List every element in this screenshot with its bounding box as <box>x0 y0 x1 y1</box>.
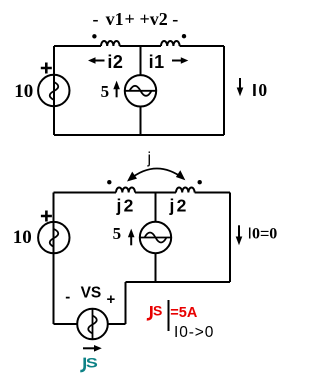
coupling arc j <box>130 168 184 179</box>
inductor L2 <box>161 41 180 46</box>
arrow 5 up bottom <box>130 235 132 245</box>
source I1 circle <box>125 75 156 106</box>
svg-text:S: S <box>153 303 162 319</box>
dot L4 <box>198 180 202 184</box>
wire bottom top circuit <box>54 134 224 136</box>
svg-text:+: + <box>107 291 116 308</box>
svg-text:v1: v1 <box>106 9 124 29</box>
svg-text:j: j <box>147 150 152 167</box>
svg-text:I0->0: I0->0 <box>174 324 214 341</box>
source JS sine <box>88 316 97 334</box>
arrow I0 down <box>239 78 241 89</box>
svg-text:VS: VS <box>81 284 102 301</box>
svg-text:i2: i2 <box>107 52 123 72</box>
svg-text:10: 10 <box>14 81 33 102</box>
source I2 line <box>140 237 171 239</box>
dot L1 <box>92 34 96 38</box>
svg-text:S: S <box>86 355 98 371</box>
source V2 sine <box>50 229 59 247</box>
svg-text:j2: j2 <box>169 196 189 216</box>
inductor L1 <box>101 41 120 46</box>
dot L3 <box>107 180 111 184</box>
label JS teal <box>80 358 84 371</box>
source V1 circle <box>38 75 69 106</box>
wire top circuit outer rectangle top <box>54 45 224 47</box>
svg-text:5: 5 <box>101 82 110 101</box>
source JS circle <box>77 309 108 340</box>
arrow 5 up <box>116 87 118 97</box>
dot L2 <box>182 34 186 38</box>
svg-text:=5A: =5A <box>170 305 198 321</box>
arrow JS right <box>83 347 95 349</box>
arrow i2 <box>95 60 105 62</box>
source I2 sine <box>145 233 167 243</box>
arrow I0 down bottom <box>238 225 240 237</box>
arrow i1 <box>172 60 183 62</box>
source I1 sine <box>130 86 152 96</box>
source I1 line <box>125 90 156 92</box>
svg-text:-: - <box>93 9 99 29</box>
svg-text:10: 10 <box>13 227 32 248</box>
label plus V1 <box>41 63 52 74</box>
wire middle branch top circuit <box>140 46 142 135</box>
svg-text:I0: I0 <box>252 80 267 100</box>
wire bottom-right horizontal <box>126 281 231 283</box>
svg-text:I0=0: I0=0 <box>248 226 278 243</box>
label JS red <box>147 306 152 319</box>
svg-text:-: - <box>65 289 70 306</box>
svg-text:i1: i1 <box>149 52 165 72</box>
wire step vertical <box>125 282 127 324</box>
wire left side top circuit <box>53 46 55 135</box>
wire right side top circuit <box>223 46 225 135</box>
inductor L4 <box>176 188 195 193</box>
wire middle branch bottom circuit <box>155 193 157 283</box>
svg-text:+: + <box>125 9 135 29</box>
bar <box>168 300 170 331</box>
wire left side bottom circuit <box>53 193 55 325</box>
wire top bottom-circuit <box>54 192 231 194</box>
wire bottom horizontal <box>54 323 126 325</box>
source V1 sine <box>50 82 59 100</box>
label plus V2 <box>41 211 52 222</box>
source I2 circle <box>140 222 171 253</box>
svg-text:5: 5 <box>113 224 122 243</box>
svg-text:+v2 -: +v2 - <box>140 9 179 29</box>
source JS line <box>92 309 94 340</box>
source V2 circle <box>38 222 69 253</box>
wire right side bottom circuit <box>229 193 231 283</box>
inductor L3 <box>116 187 135 192</box>
svg-text:j2: j2 <box>116 196 136 216</box>
